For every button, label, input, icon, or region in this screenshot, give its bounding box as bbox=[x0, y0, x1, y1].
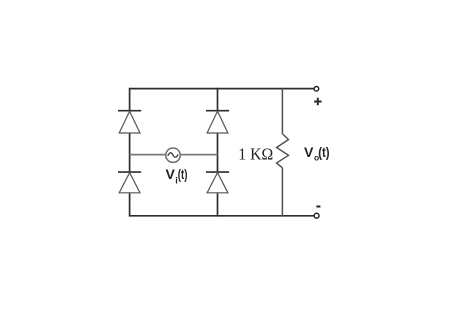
terminal bottom output bbox=[314, 213, 319, 218]
source Vi circle bbox=[166, 148, 180, 162]
wire bottom horizontal bbox=[130, 215, 314, 217]
svg-text:Vi(t): Vi(t) bbox=[166, 166, 188, 185]
wire source right bbox=[180, 154, 217, 156]
svg-text:Vo(t): Vo(t) bbox=[304, 144, 330, 163]
svg-text:1 KΩ: 1 KΩ bbox=[238, 145, 273, 164]
wire left branch lower bbox=[129, 193, 131, 217]
wire middle branch lower bbox=[217, 193, 219, 217]
diode D3 bottom-left bbox=[118, 172, 141, 193]
source sine wave bbox=[168, 153, 178, 157]
wire right branch upper bbox=[281, 88, 283, 134]
label plus bbox=[314, 98, 322, 105]
diode D2 top-middle bbox=[206, 111, 229, 133]
wire right branch lower bbox=[281, 168, 283, 217]
wire middle branch middle bbox=[217, 133, 219, 172]
wire left branch middle bbox=[129, 133, 131, 172]
wire middle branch upper bbox=[217, 88, 219, 111]
diode D4 bottom-middle bbox=[206, 172, 229, 193]
label minus bbox=[316, 206, 320, 208]
resistor R1 zigzag bbox=[277, 134, 289, 168]
wire left branch upper bbox=[129, 88, 131, 111]
wire source left bbox=[130, 154, 166, 156]
wire top horizontal bbox=[130, 88, 314, 90]
terminal top output bbox=[314, 87, 319, 92]
diode D1 top-left bbox=[118, 111, 141, 133]
